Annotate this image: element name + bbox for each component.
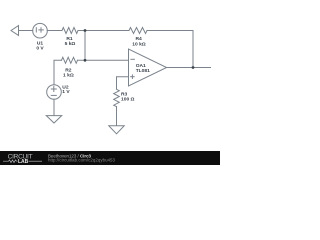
wire R2 to op-amp minus input: [78, 59, 129, 61]
svg-text:1 kΩ: 1 kΩ: [63, 72, 74, 78]
op-amp OA1 triangle: [129, 49, 167, 86]
voltage source U2: [47, 85, 62, 100]
svg-text:TL081: TL081: [136, 68, 150, 74]
junction node A bottom: [84, 59, 87, 62]
svg-text:100 Ω: 100 Ω: [121, 97, 135, 103]
junction node A top: [84, 29, 87, 32]
footer bar: [0, 151, 220, 165]
op-amp minus glyph: [131, 58, 135, 60]
ground symbol below U2: [46, 116, 61, 123]
wire R1 to node A: [78, 30, 85, 32]
resistor R2: [62, 57, 78, 63]
svg-text:LAB: LAB: [18, 159, 29, 165]
port P1 arrow: [11, 26, 19, 36]
svg-text:R3: R3: [121, 91, 128, 97]
svg-text:5 kΩ: 5 kΩ: [65, 41, 76, 47]
resistor R3: [114, 89, 120, 106]
wire U2 corner to R2: [54, 60, 62, 85]
wire U2 to ground: [53, 99, 55, 115]
wire R4 to feedback corner: [147, 31, 193, 68]
svg-text:10 kΩ: 10 kΩ: [132, 41, 146, 47]
resistor R4: [129, 28, 147, 34]
junction output node: [192, 66, 195, 69]
svg-text:http://circuitlab.com/c2q2qybu: http://circuitlab.com/c2q2qybu453: [48, 158, 116, 163]
wire plus input: [117, 77, 129, 89]
ground symbol below R3: [109, 126, 124, 134]
svg-text:0 V: 0 V: [36, 46, 44, 52]
wire node A vertical: [84, 31, 86, 61]
svg-text:1 V: 1 V: [62, 89, 70, 95]
wire node A to R4: [85, 30, 129, 32]
resistor R1: [62, 28, 78, 34]
voltage source U1: [33, 23, 48, 38]
wire R3 to ground: [116, 107, 118, 126]
op-amp plus glyph: [131, 76, 135, 78]
svg-text:R4: R4: [135, 36, 142, 42]
output wire: [167, 67, 211, 69]
footer logo wire+resistor: [3, 160, 42, 163]
wire port to U1: [19, 30, 33, 32]
wire U1 to R1: [47, 30, 62, 32]
